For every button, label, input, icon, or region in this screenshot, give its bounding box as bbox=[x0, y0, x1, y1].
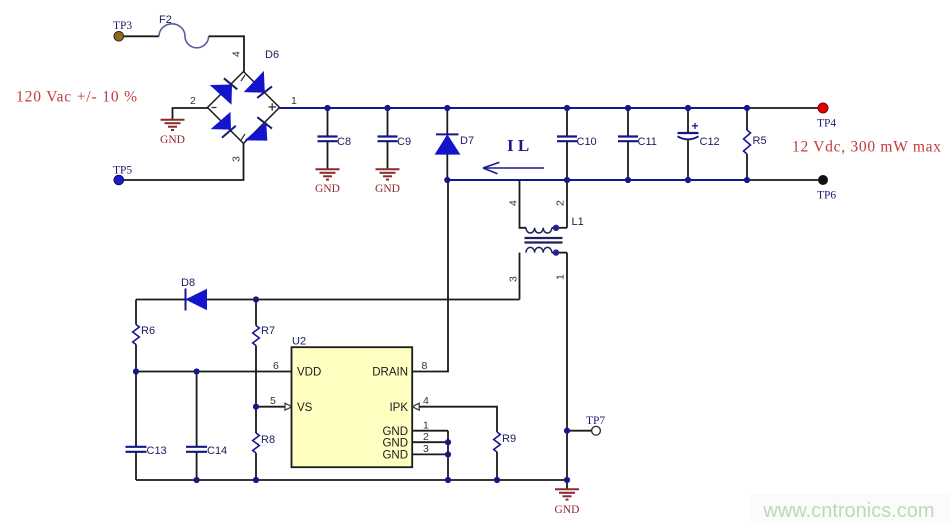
L1 pin 1 label bbox=[555, 274, 567, 280]
bridge minus mark bbox=[212, 107, 217, 109]
svg-text:R5: R5 bbox=[753, 135, 767, 147]
U2 pin name IPK bbox=[389, 402, 408, 414]
diode D8 bbox=[186, 289, 207, 311]
svg-text:L1: L1 bbox=[572, 216, 584, 228]
wire GND bus down bbox=[447, 431, 449, 480]
test point TP5 bbox=[114, 175, 124, 185]
svg-text:5: 5 bbox=[270, 395, 276, 407]
wire GND pin3 bbox=[412, 453, 448, 455]
IPK input arrow bbox=[412, 403, 419, 410]
L1 pin 4 label bbox=[508, 200, 520, 206]
svg-text:GND: GND bbox=[160, 134, 185, 146]
svg-text:GND: GND bbox=[382, 426, 408, 438]
svg-text:1: 1 bbox=[423, 420, 429, 432]
annotation I L bbox=[507, 136, 529, 155]
svg-text:GND: GND bbox=[382, 437, 408, 449]
capacitor C8 bbox=[318, 108, 352, 169]
capacitor C12 polarized bbox=[678, 108, 720, 180]
junction dot TP7 bbox=[564, 428, 570, 434]
annotation 12 Vdc bbox=[792, 139, 942, 156]
svg-text:GND: GND bbox=[315, 183, 340, 195]
bridge pin 3 label bbox=[231, 156, 243, 162]
wire DRAIN to D7 column bbox=[412, 180, 448, 372]
U2 pin name GND1 bbox=[382, 426, 408, 438]
svg-text:DRAIN: DRAIN bbox=[372, 367, 408, 379]
wire C14 column bbox=[196, 372, 198, 447]
bridge diode D6 top-left bbox=[211, 78, 237, 103]
svg-text:D6: D6 bbox=[265, 49, 279, 61]
wire fuse to bridge top bbox=[209, 36, 244, 71]
ground under C9 bbox=[375, 169, 400, 195]
U2 pin name GND2 bbox=[382, 437, 408, 449]
VS input arrow bbox=[285, 403, 292, 410]
svg-text:www.cntronics.com: www.cntronics.com bbox=[762, 500, 934, 522]
svg-text:TP7: TP7 bbox=[586, 415, 605, 427]
svg-text:D8: D8 bbox=[181, 277, 195, 289]
svg-text:R9: R9 bbox=[502, 433, 516, 445]
bridge ac mark top bbox=[241, 75, 245, 81]
svg-text:I L: I L bbox=[507, 136, 529, 155]
svg-text:3: 3 bbox=[231, 156, 243, 162]
svg-text:+: + bbox=[692, 119, 699, 133]
IC U2 label bbox=[292, 336, 306, 348]
L1 secondary polarity dot bbox=[553, 249, 559, 255]
bridge diode D6 bottom-right bbox=[246, 117, 272, 140]
L1 label bbox=[572, 216, 584, 228]
transformer L1 core bbox=[525, 238, 563, 243]
svg-text:120 Vac +/- 10 %: 120 Vac +/- 10 % bbox=[16, 89, 138, 106]
bridge rectifier D6 outline bbox=[208, 72, 280, 144]
U2 pin name DRAIN bbox=[372, 367, 408, 379]
resistor R6 bbox=[133, 300, 155, 372]
test point TP3 label bbox=[113, 20, 132, 32]
bridge diode D6 bottom-left bbox=[212, 113, 236, 138]
svg-text:C10: C10 bbox=[577, 136, 597, 148]
svg-text:R6: R6 bbox=[141, 325, 155, 337]
pin 5 label bbox=[270, 395, 276, 407]
U2 pin name GND3 bbox=[382, 450, 408, 462]
svg-text:3: 3 bbox=[423, 443, 429, 455]
watermark bbox=[762, 500, 934, 522]
svg-text:6: 6 bbox=[273, 360, 279, 372]
svg-text:U2: U2 bbox=[292, 336, 306, 348]
svg-text:TP4: TP4 bbox=[817, 118, 836, 130]
svg-text:TP6: TP6 bbox=[817, 190, 836, 202]
svg-text:8: 8 bbox=[422, 360, 428, 372]
resistor R8 bbox=[253, 407, 275, 480]
test point TP7 bbox=[592, 426, 601, 435]
U2 pin name VDD bbox=[297, 367, 321, 379]
test point TP4 label bbox=[817, 118, 836, 130]
svg-text:2: 2 bbox=[423, 431, 429, 443]
capacitor C9 bbox=[378, 108, 412, 169]
test point TP4 bbox=[818, 103, 828, 113]
junction dot VS bbox=[253, 404, 259, 410]
svg-text:D7: D7 bbox=[460, 135, 474, 147]
pin 8 label bbox=[422, 360, 428, 372]
svg-text:C11: C11 bbox=[638, 136, 657, 148]
junction dot D8 row bbox=[253, 296, 259, 302]
test point TP6 label bbox=[817, 190, 836, 202]
current arrow bbox=[483, 162, 544, 174]
capacitor C11 bbox=[618, 108, 657, 180]
svg-text:1: 1 bbox=[555, 274, 567, 280]
junction dots GND bus bbox=[445, 439, 451, 457]
wire L1 pin4 bbox=[520, 180, 527, 228]
L1 primary polarity dot bbox=[553, 225, 559, 231]
wire TP7 stub bbox=[567, 430, 592, 432]
bridge pin 4 label bbox=[231, 51, 243, 57]
svg-text:2: 2 bbox=[555, 200, 567, 206]
wire L1 pin1 down to bottom rail bbox=[566, 253, 568, 480]
junction dots second rail bbox=[444, 177, 750, 183]
wire bottom rail bbox=[136, 479, 567, 481]
svg-text:C13: C13 bbox=[147, 445, 167, 457]
svg-text:1: 1 bbox=[291, 95, 297, 107]
svg-text:12 Vdc, 300 mW max: 12 Vdc, 300 mW max bbox=[792, 139, 942, 156]
svg-text:VS: VS bbox=[297, 402, 313, 414]
ground bottom bbox=[555, 480, 580, 516]
capacitor C14 bbox=[186, 445, 227, 480]
svg-text:C14: C14 bbox=[207, 445, 227, 457]
svg-text:GND: GND bbox=[382, 450, 408, 462]
transformer L1 secondary winding bbox=[526, 247, 567, 252]
resistor R9 bbox=[494, 432, 516, 480]
watermark background bbox=[751, 494, 950, 524]
pin 1 label bbox=[423, 420, 429, 432]
fuse F2 label bbox=[159, 14, 172, 26]
pin 2 label bbox=[423, 431, 429, 443]
svg-text:GND: GND bbox=[555, 504, 580, 516]
bridge plus mark bbox=[269, 103, 277, 110]
wire L1 pin2 to rail bbox=[566, 180, 568, 228]
svg-text:R7: R7 bbox=[261, 325, 275, 337]
wire second rail bbox=[447, 179, 747, 181]
junction dots bottom rail bbox=[194, 477, 571, 483]
wire TP5 to bridge bottom bbox=[124, 144, 244, 181]
wire top rail to TP4 bbox=[747, 107, 818, 109]
ground under C8 bbox=[315, 169, 340, 195]
svg-text:TP3: TP3 bbox=[113, 20, 132, 32]
wire VS stub bbox=[256, 406, 285, 408]
wire bridge pin2 to ground bbox=[173, 108, 208, 120]
IC U2 body bbox=[292, 347, 413, 467]
resistor R5 bbox=[744, 108, 767, 180]
annotation 120 Vac bbox=[16, 89, 138, 106]
svg-text:C9: C9 bbox=[397, 136, 411, 148]
pin 4 label bbox=[423, 395, 429, 407]
bridge pin 2 label bbox=[190, 95, 196, 107]
wire D8 row bbox=[136, 299, 520, 301]
wire second rail to TP6 bbox=[747, 179, 818, 181]
bridge diode D6 top-right bbox=[245, 72, 272, 98]
capacitor C10 bbox=[557, 108, 597, 180]
svg-text:GND: GND bbox=[375, 183, 400, 195]
diode D8 label bbox=[181, 277, 195, 289]
svg-text:4: 4 bbox=[508, 200, 520, 206]
test point TP6 bbox=[818, 175, 828, 185]
bridge ac mark bottom bbox=[241, 134, 245, 140]
svg-text:C12: C12 bbox=[700, 136, 720, 148]
bridge pin 1 label bbox=[291, 95, 297, 107]
bridge rectifier D6 label bbox=[265, 49, 279, 61]
U2 pin name VS bbox=[297, 402, 313, 414]
junction dots VDD row bbox=[133, 368, 200, 374]
wire R6 column down bbox=[135, 372, 137, 447]
wire TP3 to fuse F2 bbox=[124, 35, 159, 37]
svg-text:4: 4 bbox=[231, 51, 243, 57]
test point TP3 bbox=[114, 32, 124, 42]
wire VDD row bbox=[136, 371, 292, 373]
svg-text:C8: C8 bbox=[337, 136, 351, 148]
test point TP7 label bbox=[586, 415, 605, 427]
svg-text:2: 2 bbox=[190, 95, 196, 107]
L1 pin 3 label bbox=[508, 276, 520, 282]
test point TP5 label bbox=[113, 165, 132, 177]
wire top rail bbox=[280, 107, 748, 109]
transformer L1 primary winding bbox=[526, 228, 567, 233]
svg-text:IPK: IPK bbox=[389, 402, 408, 414]
wire GND pin1 bbox=[412, 430, 448, 432]
junction dots top rail bbox=[324, 105, 750, 111]
diode D7 bbox=[436, 108, 475, 180]
fuse F2 bbox=[159, 24, 209, 48]
svg-text:3: 3 bbox=[508, 276, 520, 282]
pin 6 label bbox=[273, 360, 279, 372]
capacitor C13 bbox=[126, 445, 167, 480]
svg-text:R8: R8 bbox=[261, 434, 275, 446]
pin 3 label bbox=[423, 443, 429, 455]
svg-text:VDD: VDD bbox=[297, 367, 321, 379]
wire L1 pin3 down bbox=[519, 253, 521, 300]
svg-text:4: 4 bbox=[423, 395, 429, 407]
wire IPK to R9 bbox=[419, 407, 497, 432]
svg-text:TP5: TP5 bbox=[113, 165, 132, 177]
ground under bridge bbox=[160, 120, 185, 146]
wire GND pin2 bbox=[412, 441, 448, 443]
resistor R7 bbox=[253, 300, 275, 407]
L1 pin 2 label bbox=[555, 200, 567, 206]
